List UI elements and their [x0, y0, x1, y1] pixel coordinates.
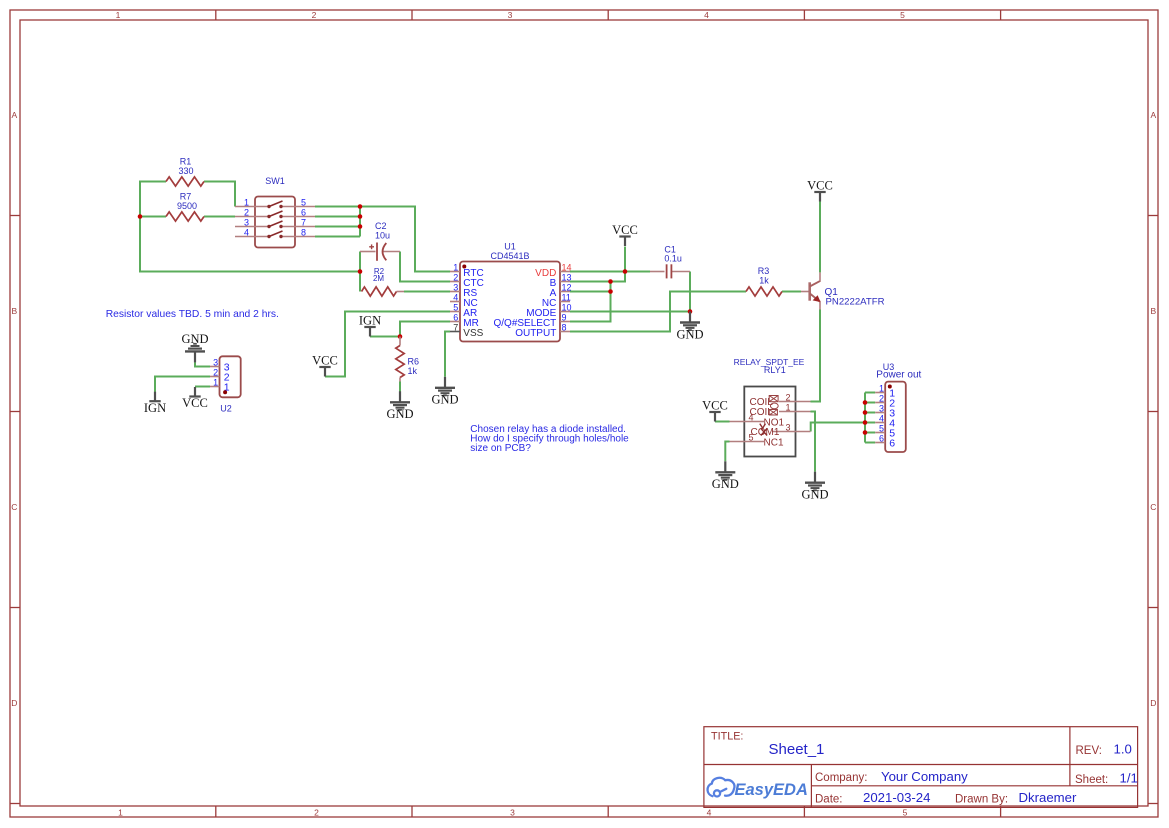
svg-text:GND: GND	[676, 327, 703, 341]
svg-text:size on PCB?: size on PCB?	[470, 443, 531, 454]
svg-text:5: 5	[301, 198, 306, 208]
junction dots	[138, 204, 868, 435]
svg-text:Company:: Company:	[815, 772, 867, 784]
wire VCC to relay pin4	[715, 421, 730, 423]
svg-text:Resistor values TBD. 5 min and: Resistor values TBD. 5 min and 2 hrs.	[106, 309, 279, 320]
svg-text:1: 1	[879, 384, 884, 394]
net flag VCC (U1 VDD)	[612, 223, 638, 246]
pin 7 stub	[450, 331, 460, 333]
wire SW1 pin6	[315, 216, 360, 218]
wire U1 MR	[400, 322, 450, 337]
svg-text:GND: GND	[712, 477, 739, 491]
svg-text:4: 4	[707, 807, 712, 817]
SCHEMATIC	[140, 182, 875, 472]
svg-text:6: 6	[453, 313, 458, 323]
svg-text:7: 7	[453, 323, 458, 333]
annotation note 2	[470, 424, 629, 454]
svg-text:8: 8	[562, 323, 567, 333]
net flag GND (R6)	[386, 391, 413, 421]
capacitor C1	[650, 245, 690, 279]
svg-text:R6: R6	[408, 356, 420, 366]
svg-text:2: 2	[785, 392, 790, 402]
wire U3 pin1	[865, 392, 875, 394]
svg-text:10: 10	[562, 303, 572, 313]
svg-text:RLY1: RLY1	[764, 365, 786, 375]
svg-text:1: 1	[453, 263, 458, 273]
wire C2 right to U1 CTC	[400, 252, 450, 282]
svg-text:1k: 1k	[408, 366, 418, 376]
svg-text:2021-03-24: 2021-03-24	[863, 790, 930, 805]
wire SW1 pin8	[315, 236, 360, 238]
svg-text:4: 4	[879, 414, 884, 424]
EasyEDA logo	[708, 778, 735, 797]
node MODE/GND	[688, 309, 693, 314]
wire U1 OUTPUT to R3	[570, 292, 746, 332]
svg-text:2M: 2M	[373, 274, 384, 283]
svg-text:3: 3	[785, 422, 790, 432]
svg-text:A: A	[1150, 110, 1156, 120]
capacitor C2	[360, 221, 400, 261]
svg-text:R3: R3	[758, 266, 770, 276]
wire U3 pin5	[865, 432, 875, 434]
svg-text:U1: U1	[504, 242, 516, 252]
net flag GND (relay pin5)	[712, 461, 739, 491]
svg-text:12: 12	[562, 283, 572, 293]
title block	[704, 727, 1138, 808]
node U3 pin5	[863, 430, 868, 435]
svg-text:330: 330	[178, 166, 193, 176]
svg-text:GND: GND	[801, 488, 828, 502]
wire VCC to Q1 collector	[819, 202, 821, 273]
svg-text:3: 3	[213, 358, 218, 368]
transistor Q1 PN2222ATFR	[810, 272, 885, 309]
wire U2 pin3 to GND	[195, 362, 210, 366]
node C2/R2 left	[358, 269, 363, 274]
node IGN/R6	[398, 334, 403, 339]
svg-text:VCC: VCC	[612, 223, 638, 237]
svg-text:4: 4	[704, 10, 709, 20]
node A	[608, 289, 613, 294]
wire SW1 pin7	[315, 226, 360, 228]
wire SW1 pin5 to U1 RTC	[315, 207, 450, 272]
svg-text:R1: R1	[180, 157, 192, 167]
wire R7 left	[140, 216, 166, 218]
wire R3 to Q1 base	[782, 291, 801, 293]
svg-text:Dkraemer: Dkraemer	[1019, 790, 1077, 805]
wire U3 pin2	[865, 402, 875, 404]
svg-text:SW1: SW1	[265, 176, 285, 186]
wire U3 input bus	[864, 393, 866, 443]
svg-text:5: 5	[749, 432, 754, 442]
svg-text:9: 9	[562, 313, 567, 323]
svg-text:4: 4	[453, 293, 458, 303]
net flag GND (C1/MODE)	[676, 312, 703, 342]
svg-text:3: 3	[453, 283, 458, 293]
resistor R6	[396, 337, 419, 382]
wire U1 VSS to GND	[445, 332, 450, 377]
net flag VCC (relay pin4)	[702, 399, 728, 422]
wire U3 pin6	[865, 442, 875, 444]
resistor R7	[166, 192, 204, 222]
wire SW1 output bus	[359, 207, 361, 237]
svg-text:C2: C2	[375, 221, 387, 231]
svg-text:2: 2	[312, 10, 317, 20]
switch SW1	[235, 176, 315, 248]
svg-text:2: 2	[244, 208, 249, 218]
svg-text:C: C	[11, 502, 17, 512]
svg-text:5: 5	[879, 424, 884, 434]
svg-text:GND: GND	[386, 407, 413, 421]
resistor R3	[746, 266, 810, 296]
wire U3 pin3	[865, 412, 875, 414]
net flag GND (U2 pin3)	[181, 332, 208, 363]
svg-text:11: 11	[562, 293, 571, 303]
wire Q1 emitter to relay pin2	[811, 310, 821, 402]
svg-text:3: 3	[244, 218, 249, 228]
net flag GND (relay pin1)	[801, 472, 828, 502]
node U3 pin3	[863, 410, 868, 415]
svg-text:5: 5	[900, 10, 905, 20]
node SW bus pin5	[358, 204, 363, 209]
wire IGN to node	[370, 336, 400, 338]
svg-text:6: 6	[879, 434, 884, 444]
svg-text:1: 1	[213, 378, 218, 388]
wire VCC to U1 AR	[325, 312, 450, 377]
svg-text:6: 6	[889, 438, 895, 450]
relay switch marks	[760, 424, 767, 436]
svg-text:B: B	[1150, 306, 1156, 316]
wire relay pin3 to U3	[811, 423, 865, 432]
svg-text:EasyEDA: EasyEDA	[735, 781, 808, 799]
svg-text:TITLE:: TITLE:	[711, 730, 743, 742]
pin 1 marker dot	[462, 265, 466, 269]
wire U1 VDD to C1	[570, 271, 650, 273]
svg-text:10u: 10u	[375, 231, 390, 241]
wire left bus R1/R7	[140, 182, 360, 272]
wire U1 MODE to GND node	[570, 311, 690, 313]
svg-text:Drawn By:: Drawn By:	[955, 794, 1008, 806]
svg-text:REV:: REV:	[1076, 745, 1102, 757]
wire relay pin5 to GND	[725, 442, 729, 462]
svg-text:1: 1	[118, 807, 123, 817]
node B	[608, 279, 613, 284]
svg-text:9500: 9500	[177, 201, 197, 211]
wire VCC to U1 B	[570, 247, 625, 282]
svg-text:A: A	[11, 110, 17, 120]
wire R1 to SW1 pin1	[204, 182, 235, 207]
connector U2	[210, 356, 241, 413]
node R1/R7 left	[138, 214, 143, 219]
wire C1 right to GND node	[689, 272, 691, 312]
relay RLY1	[730, 357, 811, 457]
svg-text:1k: 1k	[759, 276, 769, 286]
net flag IGN (U2 pin2)	[144, 392, 166, 415]
connector U3 Power out	[875, 362, 921, 452]
wire U2 pin2 to IGN	[155, 377, 210, 393]
node SW bus pin6	[358, 214, 363, 219]
wire U2 pin1 to VCC	[195, 386, 210, 388]
svg-text:1.0: 1.0	[1114, 742, 1132, 757]
svg-text:Power out: Power out	[876, 370, 921, 381]
svg-text:VCC: VCC	[807, 179, 833, 193]
net flag VCC (U2 pin1)	[182, 387, 208, 410]
svg-text:0.1u: 0.1u	[664, 253, 682, 263]
svg-text:R7: R7	[180, 192, 192, 202]
svg-text:3: 3	[510, 807, 515, 817]
svg-text:VCC: VCC	[702, 399, 728, 413]
node U3 pin4	[863, 420, 868, 425]
net flag GND (U1 VSS)	[431, 377, 458, 407]
wire B/A/QSELECT bus	[570, 282, 611, 322]
net flag IGN (U1 MR)	[359, 314, 381, 337]
svg-text:3: 3	[508, 10, 513, 20]
wire U3 pin4	[865, 422, 875, 424]
wire relay pin1 to GND	[811, 412, 816, 472]
svg-text:5: 5	[453, 303, 458, 313]
svg-text:VCC: VCC	[312, 354, 338, 368]
net flag VCC (Q1 collector)	[807, 179, 833, 202]
relay coil symbol	[769, 396, 778, 416]
resistor R2	[362, 267, 405, 296]
svg-text:IGN: IGN	[144, 401, 166, 415]
wire R7 to SW1 pin2	[204, 216, 235, 218]
svg-text:CD4541B: CD4541B	[490, 251, 529, 261]
svg-text:1/1: 1/1	[1120, 771, 1138, 786]
svg-text:5: 5	[903, 807, 908, 817]
svg-text:GND: GND	[431, 393, 458, 407]
svg-text:IGN: IGN	[359, 314, 381, 328]
svg-text:PN2222ATFR: PN2222ATFR	[826, 296, 885, 307]
svg-text:1: 1	[116, 10, 121, 20]
svg-text:2: 2	[213, 368, 218, 378]
IC U1 CD4541B	[450, 242, 572, 342]
svg-text:14: 14	[562, 263, 572, 273]
svg-text:Date:: Date:	[815, 794, 843, 806]
resistor R1	[166, 157, 204, 187]
wire C2/R2 left node	[359, 252, 361, 292]
wire R6 to GND	[399, 382, 401, 392]
svg-text:GND: GND	[181, 332, 208, 346]
node U3 pin2	[863, 400, 868, 405]
svg-text:NC1: NC1	[764, 437, 784, 448]
svg-text:D: D	[11, 698, 17, 708]
svg-text:OUTPUT: OUTPUT	[515, 328, 556, 339]
svg-text:VSS: VSS	[463, 328, 483, 339]
svg-text:Sheet:: Sheet:	[1075, 774, 1108, 786]
svg-text:VCC: VCC	[182, 396, 208, 410]
svg-text:7: 7	[301, 218, 306, 228]
svg-text:6: 6	[301, 208, 306, 218]
svg-text:2: 2	[879, 394, 884, 404]
node VDD/VCC	[623, 269, 628, 274]
wire U1 A	[570, 291, 611, 293]
svg-text:2: 2	[453, 273, 458, 283]
wire R2 right to U1 RS	[404, 291, 450, 293]
svg-text:Sheet_1: Sheet_1	[769, 741, 825, 758]
svg-text:C: C	[1150, 502, 1156, 512]
svg-text:13: 13	[562, 273, 572, 283]
svg-text:4: 4	[749, 412, 754, 422]
svg-text:1: 1	[785, 402, 790, 412]
svg-text:D: D	[1150, 698, 1156, 708]
svg-text:4: 4	[244, 228, 249, 238]
node SW bus pin7	[358, 224, 363, 229]
svg-text:1: 1	[244, 198, 249, 208]
svg-text:2: 2	[314, 807, 319, 817]
net flag VCC (U1 AR)	[312, 354, 338, 377]
svg-text:U2: U2	[220, 404, 232, 414]
svg-text:B: B	[11, 306, 17, 316]
svg-text:8: 8	[301, 228, 306, 238]
svg-text:Your Company: Your Company	[881, 769, 968, 784]
svg-text:3: 3	[879, 404, 884, 414]
